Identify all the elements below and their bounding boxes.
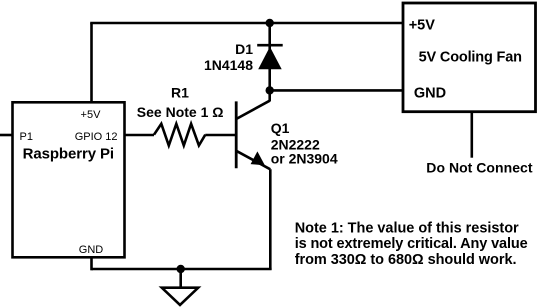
Raspberry Pi box [13, 102, 125, 257]
wire from GPIO 12 pin to resistor [125, 134, 155, 137]
svg-text:from 330Ω to 680Ω should work.: from 330Ω to 680Ω should work. [295, 252, 517, 268]
node junction on ground rail [177, 265, 185, 273]
wire +5V top rail to fan [90, 22, 403, 25]
svg-text:5V Cooling Fan: 5V Cooling Fan [419, 49, 522, 65]
node junction on +5V rail at diode cathode [266, 19, 274, 27]
svg-text:Raspberry Pi: Raspberry Pi [23, 146, 115, 163]
wire from Raspberry Pi +5V pin up to +5V rail [90, 23, 93, 102]
svg-text:is not extremely critical. Any: is not extremely critical. Any value [295, 236, 528, 252]
wire from junction to fan GND pin [270, 89, 403, 92]
wire junction down to ground symbol [179, 269, 182, 288]
wire ground bottom rail [92, 268, 272, 271]
svg-text:Do Not Connect: Do Not Connect [426, 159, 533, 175]
svg-text:+5V: +5V [409, 18, 436, 34]
svg-text:Note 1: The value of this resi: Note 1: The value of this resistor [295, 220, 519, 236]
svg-text:D1: D1 [235, 41, 253, 57]
svg-text:R1: R1 [171, 85, 189, 101]
svg-text:+5V: +5V [81, 109, 102, 121]
svg-text:GND: GND [414, 85, 446, 101]
svg-text:or 2N3904: or 2N3904 [271, 150, 338, 166]
svg-text:Q1: Q1 [271, 120, 290, 136]
node junction at diode anode / fan GND wire [266, 86, 274, 94]
svg-text:GND: GND [79, 244, 104, 256]
resistor R1 zigzag [154, 124, 205, 146]
svg-text:P1: P1 [20, 131, 33, 143]
transistor Q1 symbol [236, 101, 270, 170]
wire emitter down to ground rail [269, 169, 272, 270]
ground symbol [162, 288, 198, 305]
diode D1 symbol (cathode bar and triangle) [257, 45, 283, 69]
5V Cooling Fan box [403, 3, 536, 112]
wire collector up to junction [268, 90, 271, 101]
wire unused fan lead stub [470, 112, 473, 158]
wire P1 stub on left edge [0, 134, 13, 137]
wire from resistor to transistor base [205, 134, 236, 137]
svg-text:1N4148: 1N4148 [204, 57, 253, 73]
wire diode branch vertical [268, 23, 271, 90]
svg-text:GPIO 12: GPIO 12 [75, 131, 118, 143]
wire from Raspberry Pi GND pin down to ground rail [90, 257, 93, 270]
svg-text:See Note 1 Ω: See Note 1 Ω [137, 104, 224, 120]
